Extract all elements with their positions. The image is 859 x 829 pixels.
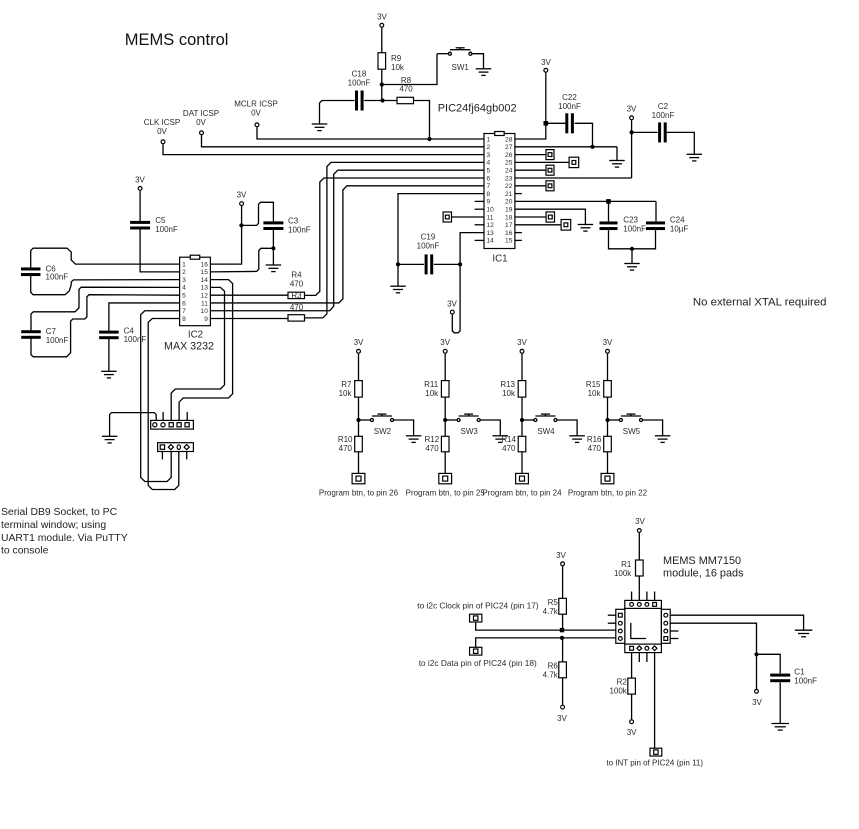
terminal 3V (SW4) <box>520 349 524 353</box>
svg-text:3V: 3V <box>635 517 645 526</box>
wire C3 bottom <box>272 230 274 249</box>
svg-text:SW4: SW4 <box>537 427 555 436</box>
wire C4 to ground <box>108 339 110 371</box>
resistor R14 <box>518 436 526 452</box>
terminal 3V (R6) <box>561 705 565 709</box>
junction C1 tap <box>754 652 758 656</box>
svg-text:28: 28 <box>505 136 513 143</box>
capacitor C23 <box>600 221 618 230</box>
svg-text:10k: 10k <box>425 389 439 398</box>
wire IC1 pin22 to pad <box>515 185 546 187</box>
ground (pin19) <box>578 225 594 232</box>
resistor R9 <box>378 53 386 69</box>
svg-text:R13: R13 <box>500 380 515 389</box>
ground (C4) <box>101 371 117 378</box>
svg-text:3V: 3V <box>541 58 551 67</box>
IC1 pin 15 stub <box>515 239 522 241</box>
svg-text:SW1: SW1 <box>452 63 470 72</box>
wire IC1 pin11 to pad <box>451 216 484 218</box>
MEMS top pad strip <box>625 600 662 608</box>
capacitor C19 <box>425 254 434 274</box>
pad (pin 25) <box>569 157 579 167</box>
wire IC1 pin28 to 3V <box>515 73 546 139</box>
wire R8 to MCLR line <box>414 101 430 140</box>
wire C3 node to ground <box>272 248 274 265</box>
svg-text:7: 7 <box>182 308 186 315</box>
svg-text:3V: 3V <box>440 338 450 347</box>
wire R6 to 3V <box>562 678 564 705</box>
svg-text:1: 1 <box>487 136 491 143</box>
svg-text:R10: R10 <box>338 435 353 444</box>
svg-text:10: 10 <box>487 207 495 214</box>
junction R5/clock <box>560 628 564 632</box>
wire 3V to R1 <box>638 533 640 560</box>
wire MEMS to R2 <box>631 653 633 679</box>
resistor R7 <box>355 381 363 398</box>
resistor R1 <box>636 560 644 576</box>
ground (SW5) <box>655 436 671 443</box>
wire C3 to IC2 pin15 <box>210 248 273 272</box>
svg-text:R15: R15 <box>586 380 601 389</box>
wire 3V to R9 <box>381 28 383 53</box>
switch SW4 <box>534 414 557 421</box>
svg-text:7: 7 <box>487 183 491 190</box>
ground (SW2) <box>406 436 422 443</box>
svg-text:10k: 10k <box>339 389 353 398</box>
terminal 3V (SW3) <box>443 349 447 353</box>
svg-text:Program btn, to pin 26: Program btn, to pin 26 <box>319 489 399 498</box>
resistor R11 <box>441 381 449 398</box>
header stub pin2 <box>162 412 164 421</box>
svg-text:3V: 3V <box>377 13 387 22</box>
svg-text:PIC24fj64gb002: PIC24fj64gb002 <box>438 103 517 115</box>
svg-text:3V: 3V <box>627 728 637 737</box>
svg-text:15: 15 <box>505 238 513 245</box>
wire 3V to C22 <box>546 122 566 124</box>
wire pin27 to ground <box>616 147 618 161</box>
wire IC2 pin14 to header <box>179 280 233 421</box>
IC1 pin 10 stub <box>475 208 484 210</box>
wire MCLR to IC1 pin1 <box>257 127 484 139</box>
junction R6/data <box>560 636 564 640</box>
svg-text:No external XTAL required: No external XTAL required <box>693 297 827 309</box>
wire IC1 pin23 to 3V <box>515 177 632 179</box>
wire to C23 <box>608 201 610 221</box>
svg-text:13: 13 <box>487 230 495 237</box>
wire 3V to R7 <box>358 354 360 381</box>
wire node to SW2 <box>359 419 371 421</box>
wire C19 left <box>398 263 424 265</box>
wire IC1 pin13 to C19 node <box>460 233 484 265</box>
wire IC1 pin25 to pad <box>515 161 569 163</box>
pad (i2c data) <box>470 647 482 655</box>
svg-text:10k: 10k <box>588 389 602 398</box>
svg-text:0V: 0V <box>157 127 167 136</box>
pad (pin 22) <box>546 181 554 191</box>
svg-text:26: 26 <box>505 152 513 159</box>
capacitor C7 <box>21 330 41 339</box>
MEMS top stub 3 <box>646 592 648 601</box>
switch SW3 <box>457 414 480 421</box>
wire IC1 pin24 to pad <box>515 169 546 171</box>
switch SW5 <box>619 414 642 421</box>
wire node to SW4 <box>522 419 534 421</box>
wire R15 to node <box>607 397 609 420</box>
wire C1 to ground <box>779 682 781 723</box>
svg-text:470: 470 <box>425 444 439 453</box>
IC1 pin 12 stub <box>475 224 484 226</box>
wire R10 to pad <box>358 452 360 474</box>
MEMS top stub 1 <box>631 592 633 601</box>
IC1 pin 21 stub <box>515 193 522 195</box>
MEMS top stub 4 <box>654 592 656 601</box>
pad (Program btn, to pin 24) <box>516 473 529 483</box>
svg-text:R11: R11 <box>424 380 439 389</box>
pad (pin 26) <box>546 150 554 160</box>
resistor R10 <box>355 436 363 452</box>
svg-text:Program btn, to pin 22: Program btn, to pin 22 <box>568 489 648 498</box>
pad (Program btn, to pin 22) <box>601 473 614 483</box>
svg-text:SW3: SW3 <box>461 427 479 436</box>
pad (Program btn, to pin 25) <box>439 473 452 483</box>
svg-text:24: 24 <box>505 168 513 175</box>
wire 3V to IC2 pin16 <box>210 206 241 264</box>
MEMS right stub 4 <box>670 638 678 640</box>
ground (C19) <box>390 286 406 293</box>
wire IC2 pin13 to header <box>171 287 224 420</box>
svg-text:470: 470 <box>339 444 353 453</box>
wire node to SW1 <box>382 54 437 85</box>
svg-text:10: 10 <box>201 308 209 315</box>
header upper pins <box>153 423 190 427</box>
wire C6 bottom to IC2 pin3 <box>31 276 180 295</box>
ground (pin27) <box>609 161 625 168</box>
svg-text:DAT ICSP: DAT ICSP <box>183 109 219 118</box>
junction C22/pin27 <box>590 145 594 149</box>
wire MEMS gnd <box>670 615 803 630</box>
svg-text:9: 9 <box>204 316 208 323</box>
IC2 MAX3232 pin numbers <box>182 261 208 322</box>
ground (SW1) <box>476 69 492 76</box>
terminal 3V (C5) <box>138 187 142 191</box>
wire IC2 pin11 to IC1 pin7 <box>210 186 484 303</box>
IC2 MAX3232 body <box>180 257 211 326</box>
wire IC2 pin12 to R3 <box>210 294 288 296</box>
terminal DAT ICSP <box>200 131 204 135</box>
wire IC2 pin8 to header <box>148 318 179 489</box>
junction C22 tap <box>544 121 549 126</box>
header lower stub pin4 <box>186 452 188 460</box>
MEMS pads <box>618 603 667 651</box>
junction C2 tap <box>630 130 634 134</box>
wire 3V to C2 <box>632 131 658 133</box>
wire R11 to node <box>444 397 446 420</box>
wire C23 bottom rail <box>609 230 656 249</box>
wire node to R16 <box>607 420 609 436</box>
wire node to SW3 <box>445 419 457 421</box>
wire R5 to clock <box>562 614 564 630</box>
wire R14 to pad <box>521 452 523 474</box>
MEMS module U2 body <box>625 608 662 644</box>
svg-text:19: 19 <box>505 207 513 214</box>
svg-text:IC1: IC1 <box>492 254 507 265</box>
svg-text:470: 470 <box>502 444 516 453</box>
connector header (lower row) <box>158 443 194 452</box>
capacitor C6 <box>21 267 41 276</box>
wire IC2 pin10 to IC1 pin5 <box>210 170 484 311</box>
wire CLK to IC1 pin3 <box>163 144 484 155</box>
ground (SW3) <box>493 436 509 443</box>
wire 3V hook (pin13) <box>452 264 460 332</box>
svg-text:MEMS control: MEMS control <box>125 31 229 49</box>
svg-text:3V: 3V <box>517 338 527 347</box>
svg-text:8: 8 <box>182 316 186 323</box>
wire C5 to IC2 pin2 <box>140 229 180 272</box>
junction C19 left <box>396 262 400 266</box>
svg-text:15: 15 <box>201 269 209 276</box>
junction MCLR node <box>427 137 431 141</box>
svg-text:25: 25 <box>505 160 513 167</box>
junction C3 bottom <box>271 246 275 250</box>
svg-text:3V: 3V <box>237 191 247 200</box>
IC1 pin 14 stub <box>475 239 484 241</box>
header lower stub pin1 <box>161 452 163 460</box>
wire IC1 pin27 <box>515 146 617 148</box>
svg-text:R16: R16 <box>587 435 602 444</box>
MEMS right pad strip <box>661 609 670 643</box>
wire to C1 <box>757 654 781 673</box>
svg-text:Program btn, to pin 24: Program btn, to pin 24 <box>482 489 562 498</box>
capacitor C18 <box>355 91 364 111</box>
wire node to R14 <box>521 420 523 436</box>
junction R9/SW1 node <box>380 82 384 86</box>
svg-text:11: 11 <box>201 300 208 307</box>
connector header (upper row) <box>151 420 194 429</box>
terminal 3V (R2) <box>630 720 634 724</box>
svg-text:to INT pin of PIC24 (pin 11): to INT pin of PIC24 (pin 11) <box>606 759 703 768</box>
ground (C23/C24) <box>624 264 640 271</box>
capacitor C2 <box>658 122 667 142</box>
svg-text:12: 12 <box>201 292 209 299</box>
ground (C3) <box>266 265 282 272</box>
pad (Program btn, to pin 26) <box>352 473 365 483</box>
svg-text:0V: 0V <box>196 118 206 127</box>
capacitor C24 <box>646 221 665 230</box>
ground (SW4) <box>569 436 585 443</box>
terminal MCLR ICSP <box>255 123 259 127</box>
svg-text:3V: 3V <box>752 698 762 707</box>
terminal CLK ICSP <box>161 140 165 144</box>
wire MEMS vdd <box>670 623 756 654</box>
svg-text:12: 12 <box>487 222 495 229</box>
wire IC1 pin20 <box>515 200 656 202</box>
svg-text:R14: R14 <box>501 435 516 444</box>
wire C18 to R8 <box>364 100 397 102</box>
svg-text:3V: 3V <box>354 338 364 347</box>
wire IC2 pin6 to C4 <box>109 303 180 331</box>
svg-text:IC2: IC2 <box>188 330 203 341</box>
capacitor C3 <box>263 221 283 230</box>
svg-text:6: 6 <box>182 300 186 307</box>
wire IC2 pin9 to R <box>210 317 288 319</box>
MEMS bottom stub 3 <box>646 653 648 662</box>
wire DAT to IC1 pin2 <box>202 135 485 147</box>
capacitor C22 <box>565 113 574 133</box>
wire 3V to C5 <box>139 191 141 222</box>
wire IC1 pin8 down <box>398 194 484 287</box>
MEMS bottom stub 2 <box>638 653 640 662</box>
svg-text:R7: R7 <box>341 380 352 389</box>
svg-text:3V: 3V <box>603 338 613 347</box>
wire C22 to pin27 line <box>575 123 593 147</box>
wire R3 to IC1 pin6 <box>305 178 485 295</box>
svg-text:2: 2 <box>487 144 491 151</box>
wire to ground (C23) <box>631 249 633 264</box>
resistor R2 <box>628 678 636 694</box>
svg-text:11: 11 <box>487 214 494 221</box>
wire IC1 pin19 to ground <box>515 209 586 224</box>
svg-text:22: 22 <box>505 183 513 190</box>
MEMS bottom pad strip <box>625 644 662 653</box>
junction C3 tap <box>239 223 243 227</box>
wire C19 right <box>434 263 460 265</box>
terminal 3V (SW5) <box>606 349 610 353</box>
pad (pin 18) <box>546 212 554 222</box>
wire i2c clock <box>476 622 616 630</box>
wire node to SW5 <box>608 419 620 421</box>
svg-text:Program btn, to pin 25: Program btn, to pin 25 <box>406 489 486 498</box>
svg-text:13: 13 <box>201 285 209 292</box>
wire i2c data <box>476 638 616 647</box>
svg-text:17: 17 <box>505 222 513 229</box>
resistor R15 <box>604 381 612 398</box>
MEMS right stub 3 <box>670 630 678 632</box>
terminal 3V (SW2) <box>357 349 361 353</box>
svg-text:10k: 10k <box>502 389 516 398</box>
wire IC1 pin18 to pad <box>515 216 546 218</box>
terminal 3V (C2) <box>630 116 634 120</box>
svg-text:27: 27 <box>505 144 513 151</box>
svg-text:23: 23 <box>505 175 513 182</box>
svg-text:3V: 3V <box>556 551 566 560</box>
ground (DB9) <box>102 436 118 443</box>
wire R1 to MEMS <box>638 576 640 600</box>
wire C7 top to IC2 pin4 <box>31 287 180 331</box>
svg-text:6: 6 <box>487 175 491 182</box>
resistor R8 <box>397 97 414 103</box>
svg-text:9: 9 <box>487 199 491 206</box>
capacitor C5 <box>130 221 150 230</box>
junction SW5 node <box>605 418 609 422</box>
svg-text:SW5: SW5 <box>623 427 641 436</box>
svg-text:3V: 3V <box>135 176 145 185</box>
svg-text:5: 5 <box>487 168 491 175</box>
junction SW3 node <box>443 418 447 422</box>
svg-text:470: 470 <box>588 444 602 453</box>
wire 3V to R5 <box>562 566 564 598</box>
wire data to R6 <box>562 638 564 662</box>
resistor R13 <box>518 381 526 398</box>
junction C23/C24 gnd <box>630 247 634 251</box>
svg-text:21: 21 <box>505 191 513 198</box>
pad (i2c clock) <box>470 614 482 622</box>
IC1 pin 16 stub <box>515 232 522 234</box>
switch SW2 <box>370 414 393 421</box>
wire C24 drop <box>655 201 657 221</box>
svg-text:20: 20 <box>505 199 513 206</box>
pad (INT) <box>650 748 662 756</box>
svg-text:16: 16 <box>201 261 209 268</box>
wire IC2 pin7 to header <box>141 311 180 482</box>
svg-text:0V: 0V <box>251 109 261 118</box>
capacitor C1 <box>770 674 790 683</box>
svg-text:3: 3 <box>182 277 186 284</box>
wire IC1 pin26 to pad <box>515 154 546 156</box>
wire C3 top hook <box>241 202 273 225</box>
wire SW3 to ground <box>480 420 500 436</box>
terminal 3V (C3) <box>240 202 244 206</box>
svg-text:8: 8 <box>487 191 491 198</box>
svg-text:16: 16 <box>505 230 513 237</box>
resistor R3b <box>288 315 305 321</box>
svg-text:R12: R12 <box>425 435 440 444</box>
wire SW2 to ground <box>394 420 414 436</box>
ground (C1) <box>771 724 789 731</box>
svg-text:MCLR ICSP: MCLR ICSP <box>234 100 278 109</box>
svg-text:14: 14 <box>487 238 495 245</box>
wire node to R10 <box>358 420 360 436</box>
junction C18/R8 node <box>381 98 385 102</box>
wire R13 to node <box>521 397 523 420</box>
svg-text:1: 1 <box>182 261 186 268</box>
wire R9 to node <box>381 69 383 84</box>
svg-text:SW2: SW2 <box>374 427 392 436</box>
svg-text:CLK ICSP: CLK ICSP <box>144 118 180 127</box>
ground (C2) <box>687 154 703 161</box>
pad (to pin 11) <box>443 212 451 222</box>
wire R2 to 3V <box>631 694 633 719</box>
resistor R12 <box>441 436 449 452</box>
wire R12 to pad <box>444 452 446 474</box>
MEMS left stub 2 <box>608 622 616 624</box>
svg-text:18: 18 <box>505 214 513 221</box>
svg-text:2: 2 <box>182 269 186 276</box>
svg-text:4: 4 <box>182 285 186 292</box>
wire SW1 right to ground <box>472 54 484 69</box>
junction SW2 node <box>356 418 360 422</box>
wire 3V to R15 <box>607 354 609 381</box>
junction C23 tap <box>606 199 611 204</box>
wire ground to header pin1 <box>110 413 157 437</box>
header stub pin5 <box>186 412 188 421</box>
svg-text:to i2c Data pin of PIC24 (pin: to i2c Data pin of PIC24 (pin 18) <box>419 658 537 668</box>
IC1 pin 9 stub <box>475 200 484 202</box>
svg-text:14: 14 <box>201 277 209 284</box>
svg-text:4: 4 <box>487 160 491 167</box>
junction C19 right <box>458 262 462 266</box>
wire C7 bottom to IC2 pin5 <box>31 295 180 357</box>
wire R3b to IC1 pin4 <box>305 162 485 318</box>
terminal 3V (R5) <box>561 562 565 566</box>
svg-text:MAX 3232: MAX 3232 <box>164 341 214 353</box>
pad (pin 17) <box>561 220 571 231</box>
svg-text:3V: 3V <box>557 714 567 723</box>
wire C2 to ground <box>667 132 695 154</box>
terminal 3V (pin28) <box>544 68 548 72</box>
resistor R3 <box>288 292 305 298</box>
wire R16 to pad <box>607 452 609 474</box>
MEMS left stub 1 <box>608 614 616 616</box>
